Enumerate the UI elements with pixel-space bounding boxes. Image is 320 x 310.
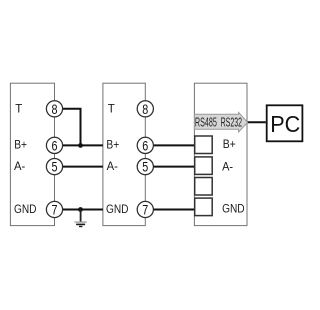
- terminal pad spare of U3: [195, 178, 213, 196]
- pin 6 of U2: [137, 137, 153, 153]
- terminal pad B+ of U3: [195, 136, 213, 154]
- earth ground: [75, 210, 87, 227]
- converter U3 body: [194, 83, 247, 225]
- wire U1 pin7 to U2 GND: [55, 209, 103, 211]
- wire U1 pin6 to U2 B+: [55, 144, 103, 146]
- pin 8 of U2: [137, 101, 153, 117]
- svg-text:6: 6: [52, 137, 58, 153]
- wire U2 pin5 to U3 A- pad: [145, 166, 196, 168]
- svg-text:7: 7: [142, 202, 148, 218]
- junction dot GND net: [78, 207, 83, 212]
- svg-text:A-: A-: [14, 161, 25, 173]
- pin 5 of U1: [46, 159, 62, 175]
- svg-text:RS485: RS485: [195, 114, 217, 129]
- pin 5 of U2: [137, 159, 153, 175]
- wire U1 pin8 to B+ net: [55, 109, 81, 146]
- svg-text:T: T: [15, 103, 22, 115]
- svg-text:B+: B+: [14, 140, 27, 152]
- wire U1 pin5 to U2 A-: [55, 166, 103, 168]
- svg-text:8: 8: [52, 101, 58, 117]
- RS485 to RS232 arrow banner: [194, 112, 247, 132]
- svg-text:8: 8: [142, 101, 148, 117]
- svg-text:GND: GND: [222, 203, 245, 215]
- svg-text:B+: B+: [223, 139, 236, 151]
- terminal pad A- of U3: [195, 157, 213, 175]
- pin 7 of U2: [137, 201, 153, 217]
- terminal pad GND of U3: [195, 198, 213, 216]
- svg-text:A-: A-: [222, 161, 233, 173]
- svg-text:6: 6: [142, 137, 148, 153]
- svg-text:7: 7: [52, 202, 58, 218]
- wire U2 pin6 to U3 B+ pad: [145, 144, 196, 146]
- module U2 body: [103, 83, 145, 225]
- junction dot B+ net: [78, 143, 83, 148]
- svg-text:GND: GND: [14, 204, 37, 216]
- svg-text:A-: A-: [107, 161, 118, 173]
- PC box: [267, 105, 303, 141]
- pin 6 of U1: [46, 137, 62, 153]
- wire U2 pin7 to U3 GND pad: [145, 209, 196, 211]
- svg-text:PC: PC: [270, 111, 300, 137]
- svg-text:RS232: RS232: [221, 114, 243, 129]
- pin 7 of U1: [46, 201, 62, 217]
- pin 8 of U1: [46, 101, 62, 117]
- svg-text:T: T: [108, 103, 115, 115]
- svg-text:5: 5: [142, 159, 148, 175]
- svg-text:GND: GND: [106, 204, 129, 216]
- svg-text:B+: B+: [106, 140, 119, 152]
- module U1 body: [10, 83, 54, 225]
- svg-text:5: 5: [52, 159, 58, 175]
- wire U3 RS232 to PC: [247, 121, 266, 123]
